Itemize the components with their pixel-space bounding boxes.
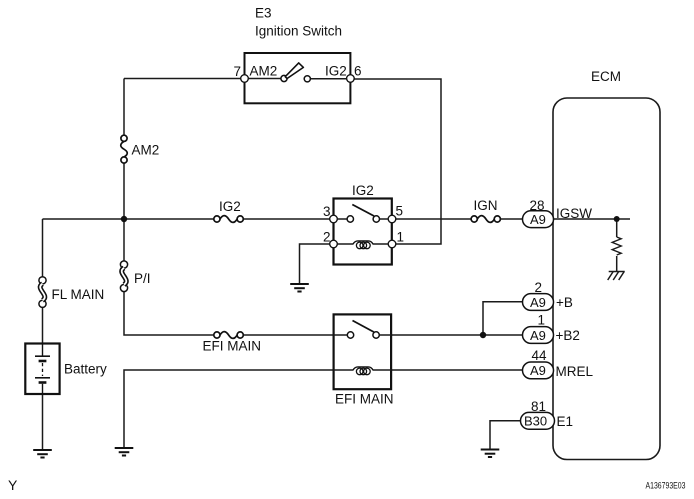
relay IG2 pin 1 terminal	[388, 240, 396, 248]
svg-text:AM2: AM2	[250, 64, 278, 79]
switch contact right	[304, 76, 310, 82]
pin 7 terminal	[241, 75, 249, 83]
relay IG2 contact left	[347, 216, 353, 222]
relay IG2 pin 2 terminal	[330, 240, 338, 248]
relay IG2 blade	[352, 205, 374, 217]
svg-text:E3: E3	[255, 6, 272, 21]
wire battery vertical top	[42, 219, 44, 277]
wire P/I vertical upper	[123, 219, 125, 261]
fuse EFI MAIN	[214, 332, 244, 339]
wire battery vertical bottom to ground	[42, 394, 44, 450]
relay EFI MAIN coil wire	[334, 369, 392, 371]
switch lever	[285, 63, 303, 79]
svg-text:81: 81	[531, 399, 546, 414]
svg-text:IG2: IG2	[219, 199, 241, 214]
relay IG2 coil	[353, 241, 373, 244]
node IGSW pull-down junction	[614, 216, 620, 222]
ground (battery)	[33, 450, 52, 458]
svg-text:IGN: IGN	[474, 198, 498, 213]
svg-text:2: 2	[535, 280, 543, 295]
ground (EFI MAIN relay coil return)	[115, 448, 134, 456]
svg-text:ECM: ECM	[591, 69, 621, 84]
relay EFI MAIN contact wire stubs	[334, 334, 392, 336]
fusible link P/I	[120, 261, 127, 292]
wire IGN fuse to IGSW connector	[500, 218, 523, 220]
wire MREL coil left segment to ground drop	[124, 370, 354, 448]
wire resistor top lead	[616, 219, 618, 237]
svg-text:1: 1	[397, 230, 405, 245]
relay EFI MAIN blade	[353, 321, 374, 333]
svg-text:A9: A9	[530, 363, 546, 378]
wire IGSW internal to pull-down	[553, 218, 630, 220]
battery	[25, 344, 59, 395]
svg-text:1: 1	[538, 313, 546, 328]
wire resistor bottom lead	[616, 256, 618, 272]
relay EFI MAIN	[334, 314, 392, 389]
svg-text:44: 44	[532, 348, 548, 363]
ECM box	[553, 98, 660, 460]
wire AM2 vertical upper	[123, 79, 125, 136]
wire relay contact to +B2 connector	[377, 334, 523, 336]
switch contact left	[281, 75, 287, 81]
fuse IG2	[214, 216, 244, 223]
node main junction (battery feed / AM2 / P-I)	[121, 216, 127, 222]
connector A9 pin 1 (+B2)	[523, 327, 554, 344]
connector A9 pin 28 (IGSW)	[523, 211, 554, 228]
wire ignition switch pin7 feed (top horizontal)	[124, 78, 245, 80]
svg-text:B30: B30	[524, 414, 547, 429]
wire E1 to ground	[490, 421, 523, 450]
relay IG2 contact wire stubs	[337, 218, 388, 220]
relay IG2 pin 5 terminal	[388, 215, 396, 223]
svg-text:IGSW: IGSW	[556, 206, 592, 221]
svg-text:IG2: IG2	[352, 183, 374, 198]
svg-text:7: 7	[234, 64, 242, 79]
svg-text:+B2: +B2	[556, 328, 580, 343]
wire main B+ horizontal right of IG2 fuse to relay pin3	[243, 218, 333, 220]
wire ignition switch pin6 to relay pin1	[350, 79, 441, 244]
svg-text:Y: Y	[8, 477, 18, 493]
svg-text:A9: A9	[530, 212, 546, 227]
svg-text:FL MAIN: FL MAIN	[52, 287, 105, 302]
resistor (IGSW pull-down inside ECM)	[612, 237, 621, 255]
svg-text:2: 2	[323, 230, 331, 245]
relay IG2	[330, 199, 396, 265]
svg-text:AM2: AM2	[132, 143, 160, 158]
relay IG2 coil wire	[337, 243, 388, 245]
wire P/I vertical lower + EFI MAIN fuse feed	[124, 291, 214, 335]
svg-text:28: 28	[530, 198, 545, 213]
svg-text:6: 6	[354, 64, 362, 79]
svg-text:A136793E03: A136793E03	[646, 481, 686, 492]
svg-text:E1: E1	[557, 414, 574, 429]
connector A9 pin 44 (MREL)	[523, 362, 554, 379]
relay EFI MAIN coil	[353, 367, 373, 370]
svg-text:MREL: MREL	[556, 364, 594, 379]
wire MREL coil right segment to connector	[373, 369, 525, 371]
switch internal wire stubs	[248, 78, 346, 80]
svg-text:IG2: IG2	[325, 64, 347, 79]
wire battery vertical mid	[42, 307, 44, 344]
pin 6 terminal	[347, 75, 355, 83]
fuse AM2	[121, 135, 128, 163]
svg-text:+B: +B	[556, 295, 573, 310]
ignition switch E3	[241, 53, 355, 103]
svg-text:3: 3	[323, 204, 331, 219]
svg-text:Ignition Switch: Ignition Switch	[255, 24, 342, 39]
node +B2 branch junction	[480, 332, 486, 338]
ground (E1)	[481, 450, 500, 458]
wire main B+ horizontal left of IG2 fuse	[43, 218, 214, 220]
svg-text:5: 5	[396, 204, 404, 219]
relay IG2 pin 3 terminal	[330, 215, 338, 223]
wire AM2 vertical lower	[123, 163, 125, 219]
wire relay pin2 to ground	[300, 244, 334, 284]
wire +B branch	[483, 302, 524, 335]
connector B30 pin 81 (E1)	[521, 412, 555, 429]
svg-text:EFI MAIN: EFI MAIN	[335, 392, 394, 407]
chassis ground (inside ECM)	[608, 272, 625, 281]
svg-text:A9: A9	[530, 328, 546, 343]
wire relay pin5 to IGN fuse	[392, 218, 471, 220]
svg-text:Battery: Battery	[64, 362, 107, 377]
ground (IG2 relay coil)	[290, 284, 309, 292]
svg-text:EFI MAIN: EFI MAIN	[203, 339, 262, 354]
relay EFI MAIN contact right	[373, 332, 379, 338]
wire EFI MAIN fuse to relay contact	[243, 334, 350, 336]
svg-text:A9: A9	[530, 295, 546, 310]
connector A9 pin 2 (+B)	[523, 294, 554, 311]
relay EFI MAIN contact left	[347, 332, 353, 338]
fuse IGN	[471, 216, 500, 223]
relay IG2 contact right	[373, 216, 379, 222]
fusible link FL MAIN	[39, 277, 46, 308]
svg-text:P/I: P/I	[134, 271, 151, 286]
